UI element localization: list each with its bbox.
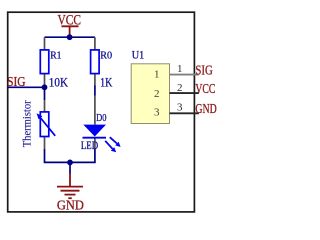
pin 3 of U1 [154, 101, 199, 118]
svg-text:10K: 10K [49, 74, 69, 89]
wire VCC rail (R1 top to R0 top) [45, 36, 96, 38]
svg-text:3: 3 [177, 101, 183, 113]
pin 2 of U1 [154, 82, 199, 100]
svg-text:Thermistor: Thermistor [22, 100, 34, 147]
wire R0 bottom to D0 [94, 86, 96, 96]
thermistor RT [37, 100, 56, 149]
IC U1 [131, 64, 169, 124]
wire D0 bottom [70, 149, 95, 163]
svg-text:2: 2 [154, 88, 160, 100]
node SIG junction [42, 84, 48, 90]
svg-text:GND: GND [195, 102, 216, 117]
node VCC junction [67, 34, 73, 40]
power symbol VCC [58, 13, 82, 37]
svg-text:D0: D0 [96, 112, 107, 124]
svg-text:GND: GND [57, 198, 84, 213]
svg-text:U1: U1 [132, 50, 145, 62]
svg-text:3: 3 [154, 106, 160, 118]
node GND junction [67, 160, 73, 166]
svg-text:R1: R1 [50, 51, 61, 62]
svg-text:1: 1 [154, 68, 160, 80]
resistor R0 [91, 37, 100, 86]
svg-text:VCC: VCC [195, 82, 215, 97]
resistor R1 [40, 37, 49, 86]
svg-text:1K: 1K [100, 74, 113, 89]
wire thermistor bottom [45, 149, 71, 162]
wire R1 bottom to thermistor [44, 87, 46, 100]
svg-text:SIG: SIG [195, 63, 212, 78]
svg-text:R0: R0 [100, 51, 112, 62]
wire SIG [8, 86, 45, 88]
pin 1 of U1 [154, 63, 199, 81]
svg-text:1: 1 [177, 63, 183, 75]
ground [57, 174, 84, 214]
svg-text:2: 2 [177, 82, 183, 94]
LED D0 [83, 96, 121, 153]
wire GND stub [69, 162, 71, 173]
